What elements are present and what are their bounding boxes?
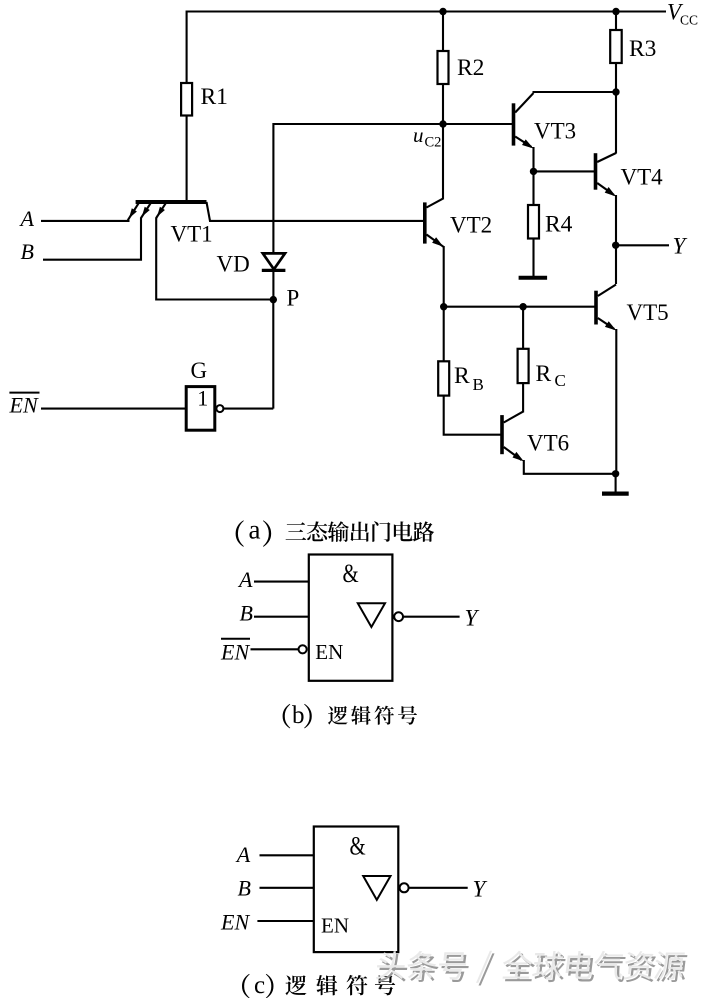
wire Y output bbox=[616, 244, 669, 246]
wire R4 top bbox=[532, 171, 534, 205]
svg-text:Y: Y bbox=[673, 233, 688, 258]
wire Y (c) bbox=[409, 887, 468, 889]
wire P down to gate output bbox=[272, 300, 274, 409]
wire RB top bbox=[443, 307, 445, 362]
svg-text:A: A bbox=[235, 842, 251, 867]
wire input EN bbox=[41, 408, 186, 410]
wire R3 bottom bbox=[615, 63, 617, 92]
gate G box bbox=[186, 387, 215, 431]
resistor RB bbox=[438, 361, 449, 395]
wire Y (b) bbox=[403, 616, 460, 618]
svg-text:VT1: VT1 bbox=[171, 222, 213, 247]
wire EN (b) bbox=[251, 648, 299, 650]
resistor R3 bbox=[610, 30, 622, 63]
diode VD cathode bar bbox=[262, 269, 286, 272]
transistor VT2 emitter bbox=[427, 235, 444, 247]
svg-text:B: B bbox=[473, 375, 484, 394]
wire B (b) bbox=[254, 616, 309, 618]
wire VT6 emitter to ground node bbox=[524, 460, 616, 474]
wire RC bottom bbox=[522, 383, 524, 412]
svg-text:R1: R1 bbox=[201, 84, 228, 110]
bubble output (b) bbox=[394, 612, 403, 621]
wire RC top bbox=[522, 307, 524, 349]
wire VD top vertical bbox=[272, 123, 274, 254]
gate G output bubble bbox=[216, 405, 223, 412]
svg-text:VT3: VT3 bbox=[534, 119, 576, 144]
resistor R1 bbox=[181, 83, 192, 116]
node R3 bottom junction bbox=[612, 88, 619, 95]
svg-text:B: B bbox=[238, 876, 251, 901]
wire VT5 emitter down bbox=[615, 329, 617, 474]
wire B (c) bbox=[260, 887, 314, 889]
transistor VT1 base bar bbox=[136, 200, 207, 204]
wire VT3 collector to R3 node bbox=[533, 91, 617, 93]
wire RB bottom to VT6 base bbox=[444, 396, 501, 435]
transistor VT4 emitter bbox=[597, 183, 614, 195]
wire R1 bottom bbox=[186, 116, 188, 202]
wire VT1 collector to VT2 base bbox=[210, 220, 423, 222]
wire R3 top bbox=[615, 11, 617, 31]
svg-text:B: B bbox=[21, 239, 34, 264]
svg-text:C: C bbox=[555, 371, 566, 390]
wire R3 node to VT4 collector bbox=[615, 92, 617, 154]
node VT3 emitter junction bbox=[530, 168, 537, 175]
svg-text:EN: EN bbox=[220, 910, 250, 935]
svg-text:Y: Y bbox=[465, 605, 480, 630]
logic box (c) bbox=[314, 827, 399, 953]
logic box (b) bbox=[309, 555, 393, 681]
transistor VT3 base bar bbox=[512, 103, 516, 145]
tri-state triangle (b) bbox=[358, 603, 385, 627]
node RC junction bbox=[519, 303, 526, 310]
node VCC-R2 junction bbox=[439, 8, 446, 15]
svg-text:P: P bbox=[287, 286, 300, 311]
wire VT2 emitter to VT5 base bbox=[444, 306, 596, 308]
svg-text:u: u bbox=[413, 123, 424, 147]
svg-text:R4: R4 bbox=[545, 212, 573, 238]
svg-text:R2: R2 bbox=[457, 55, 484, 81]
wire VT2 emitter down bbox=[443, 246, 445, 307]
diode VD triangle bbox=[263, 253, 285, 269]
wire VCC rail bbox=[187, 10, 666, 12]
ground main bbox=[602, 492, 629, 496]
resistor R4 bbox=[528, 205, 539, 239]
transistor VT6 emitter bbox=[504, 447, 522, 460]
transistor VT6 collector bbox=[504, 412, 523, 423]
svg-text:VT5: VT5 bbox=[627, 300, 669, 325]
bubble EN input (b) bbox=[299, 645, 307, 653]
svg-text:b: b bbox=[292, 702, 305, 729]
transistor VT1 emitter 2 bbox=[141, 203, 151, 218]
transistor VT1 emitter 3 bbox=[156, 203, 165, 218]
svg-text:C2: C2 bbox=[425, 135, 442, 151]
transistor VT5 collector bbox=[598, 285, 616, 297]
resistor R2 bbox=[438, 51, 449, 84]
svg-text:A: A bbox=[19, 206, 35, 231]
svg-text:VT6: VT6 bbox=[527, 431, 569, 456]
node VCC-R3 junction bbox=[612, 8, 619, 15]
wire uC2 horizontal bbox=[273, 123, 512, 125]
wire A (c) bbox=[260, 854, 314, 856]
transistor VT4 base bar bbox=[594, 153, 598, 190]
svg-text:R: R bbox=[454, 363, 470, 389]
wire VT3 node to VT4 base bbox=[534, 170, 595, 172]
bubble output (c) bbox=[400, 883, 409, 892]
wire gate output bbox=[223, 408, 273, 410]
svg-text:EN: EN bbox=[321, 914, 349, 938]
caption (c) bbox=[242, 974, 250, 998]
wire VT1 emitter3 to P bbox=[156, 218, 272, 300]
svg-text:EN: EN bbox=[220, 640, 250, 665]
node uC2 bbox=[439, 120, 446, 127]
node P bbox=[270, 296, 277, 303]
svg-text:EN: EN bbox=[315, 640, 343, 664]
svg-text:CC: CC bbox=[680, 13, 698, 28]
ground under R4 bbox=[519, 276, 548, 280]
wire R2 bottom bbox=[442, 84, 444, 124]
svg-text:c: c bbox=[254, 972, 265, 998]
wire VT4 emitter down bbox=[615, 195, 617, 245]
svg-text:&: & bbox=[350, 832, 366, 861]
watermark bbox=[375, 951, 689, 986]
svg-text:a: a bbox=[249, 515, 261, 545]
wire A (b) bbox=[254, 581, 309, 583]
transistor VT1 collector bbox=[207, 202, 212, 221]
transistor VT4 collector bbox=[597, 153, 616, 162]
svg-text:VT2: VT2 bbox=[450, 213, 492, 238]
caption (a) bbox=[236, 520, 244, 546]
transistor VT6 base bar bbox=[500, 415, 504, 454]
node Y bbox=[612, 242, 619, 249]
wire uC2 to VT2 collector bbox=[442, 124, 444, 199]
transistor VT2 base bar bbox=[423, 202, 427, 243]
svg-text:EN: EN bbox=[9, 393, 39, 418]
svg-text:B: B bbox=[240, 601, 253, 626]
wire EN (c) bbox=[257, 920, 313, 922]
wire R1 top bbox=[186, 11, 188, 84]
wire VT3 emitter down bbox=[532, 147, 534, 171]
transistor VT5 base bar bbox=[594, 291, 598, 325]
wire Y to VT5 collector bbox=[615, 245, 617, 284]
wire R4 bottom bbox=[532, 239, 534, 278]
caption (b) bbox=[283, 704, 291, 728]
svg-text:&: & bbox=[343, 560, 359, 589]
node ground junction bbox=[612, 470, 619, 477]
svg-text:R3: R3 bbox=[629, 36, 656, 62]
svg-text:VT4: VT4 bbox=[621, 165, 664, 190]
wire input B bbox=[43, 218, 141, 260]
svg-text:Y: Y bbox=[473, 877, 488, 902]
wire R2 top bbox=[442, 11, 444, 52]
svg-text:1: 1 bbox=[197, 386, 208, 411]
wire input A bbox=[41, 220, 130, 222]
transistor VT3 emitter bbox=[515, 137, 531, 148]
tri-state triangle (c) bbox=[363, 876, 390, 900]
transistor VT2 collector bbox=[427, 198, 444, 207]
node RB junction bbox=[440, 303, 447, 310]
svg-text:G: G bbox=[191, 358, 208, 383]
wire to ground bbox=[615, 474, 617, 494]
transistor VT3 collector bbox=[515, 93, 533, 113]
wire VD to P bbox=[272, 270, 274, 300]
transistor VT5 emitter bbox=[598, 318, 615, 329]
transistor VT1 emitter 1 bbox=[128, 203, 139, 220]
resistor RC bbox=[518, 349, 529, 383]
svg-text:A: A bbox=[237, 567, 253, 592]
svg-text:VD: VD bbox=[217, 252, 250, 277]
svg-text:R: R bbox=[536, 361, 552, 387]
